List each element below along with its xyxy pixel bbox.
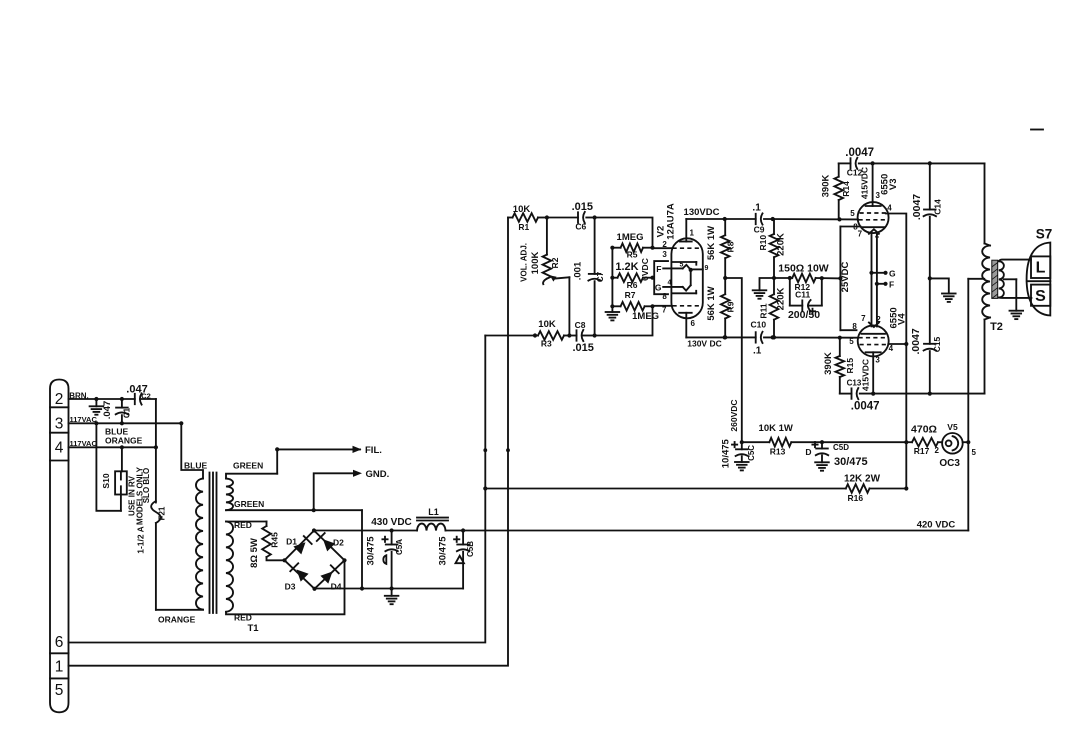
svg-text:.0047: .0047 bbox=[845, 147, 874, 159]
svg-text:25VDC: 25VDC bbox=[840, 262, 851, 293]
svg-text:150Ω 10W: 150Ω 10W bbox=[778, 263, 829, 275]
tube V5 OC3 bbox=[939, 422, 976, 469]
T2 core bbox=[992, 260, 998, 298]
svg-text:130VDC: 130VDC bbox=[684, 207, 720, 218]
reference dash bbox=[1031, 129, 1043, 131]
svg-text:7: 7 bbox=[861, 314, 866, 323]
node G heater bbox=[869, 268, 896, 278]
svg-text:D4: D4 bbox=[331, 581, 342, 591]
connector P1 bbox=[50, 380, 69, 713]
svg-text:2: 2 bbox=[55, 391, 64, 408]
T1 HV winding RED bbox=[226, 520, 345, 622]
svg-text:100K: 100K bbox=[530, 252, 541, 275]
wire FIL arrow bbox=[275, 445, 382, 474]
svg-text:R7: R7 bbox=[625, 290, 636, 300]
svg-text:C15: C15 bbox=[932, 336, 942, 352]
ground at R7 bbox=[606, 312, 620, 320]
wire fuse to T1 ORANGE bbox=[156, 610, 203, 625]
svg-text:1.2K: 1.2K bbox=[615, 261, 638, 273]
svg-text:6: 6 bbox=[691, 319, 696, 328]
wire 430VDC / 420VDC rail bbox=[314, 517, 968, 533]
svg-text:4: 4 bbox=[889, 344, 894, 353]
wire C9 to V3 grid bbox=[764, 217, 858, 222]
wire V3 screen pin4 bbox=[886, 214, 907, 345]
wire plate rail bottom bbox=[860, 392, 985, 396]
svg-text:7: 7 bbox=[858, 229, 863, 238]
svg-text:D: D bbox=[805, 447, 811, 457]
svg-text:R13: R13 bbox=[770, 446, 786, 456]
svg-text:C10: C10 bbox=[751, 320, 767, 330]
capacitor C6 .015 bbox=[547, 201, 593, 231]
svg-text:C14: C14 bbox=[933, 199, 943, 215]
capacitor C11 200/50 bbox=[788, 278, 822, 321]
svg-text:.0047: .0047 bbox=[911, 194, 923, 220]
ground at splitter bbox=[753, 278, 774, 299]
svg-text:415VDC: 415VDC bbox=[861, 359, 871, 391]
svg-text:D3: D3 bbox=[285, 581, 296, 591]
resistor R12 150ohm 10W bbox=[774, 263, 843, 293]
svg-text:C6: C6 bbox=[575, 221, 586, 231]
tube V4 6550 bbox=[849, 307, 907, 393]
wire 420VDC riser bbox=[917, 279, 971, 531]
diode D1 bbox=[286, 536, 312, 554]
svg-text:4: 4 bbox=[55, 440, 64, 457]
wire green lower to rail bbox=[360, 510, 364, 590]
svg-text:30/475: 30/475 bbox=[438, 536, 449, 566]
svg-text:T1: T1 bbox=[247, 623, 259, 634]
svg-text:OC3: OC3 bbox=[939, 458, 960, 469]
wire 130VDC bottom line bbox=[686, 335, 755, 348]
svg-text:220K: 220K bbox=[775, 233, 786, 256]
wire bias line to R17 bbox=[822, 440, 908, 444]
svg-text:C1: C1 bbox=[123, 407, 132, 418]
svg-text:L1: L1 bbox=[428, 507, 439, 517]
ground at C14/C15 bbox=[928, 276, 956, 302]
svg-text:5: 5 bbox=[972, 448, 977, 457]
diode D3 bbox=[285, 563, 309, 591]
svg-text:R1: R1 bbox=[518, 222, 529, 232]
T2 primary center tap bbox=[968, 278, 984, 280]
capacitor C7 .001 bbox=[573, 218, 605, 336]
svg-text:1: 1 bbox=[55, 659, 64, 676]
transformer T2 primary bbox=[982, 163, 990, 393]
wire V4 screen pin4 bbox=[888, 342, 908, 442]
resistor R9 56K 1W bbox=[706, 278, 735, 340]
transformer T1 primary winding BLUE/ORANGE bbox=[181, 423, 207, 609]
capacitor C5A 30/475 bbox=[366, 531, 404, 591]
svg-text:1: 1 bbox=[690, 228, 695, 237]
svg-text:8: 8 bbox=[662, 292, 667, 301]
svg-text:F21: F21 bbox=[158, 506, 167, 520]
svg-text:R8: R8 bbox=[725, 241, 735, 252]
wire heater lines V3-V4 bbox=[872, 234, 877, 327]
resistor R15 390K bbox=[823, 338, 855, 394]
svg-text:117VAC: 117VAC bbox=[70, 439, 98, 448]
svg-text:RED: RED bbox=[234, 520, 252, 530]
svg-text:.047: .047 bbox=[102, 401, 113, 420]
svg-text:.001: .001 bbox=[573, 261, 584, 280]
tube V3 6550 bbox=[850, 163, 899, 239]
svg-text:R3: R3 bbox=[541, 339, 552, 349]
svg-text:GREEN: GREEN bbox=[234, 499, 264, 509]
tube V2 12AU7A envelope bbox=[656, 203, 703, 318]
wire pin 3 117VAC bbox=[69, 415, 184, 446]
svg-text:10K: 10K bbox=[538, 319, 556, 330]
T2 label bbox=[990, 321, 1003, 333]
resistor R14 390K bbox=[821, 163, 852, 219]
capacitor C14 .0047 bbox=[911, 163, 943, 278]
svg-text:390K: 390K bbox=[821, 175, 832, 198]
ground below C5A bbox=[385, 589, 399, 605]
diode D2 bbox=[317, 533, 344, 551]
svg-text:390K: 390K bbox=[823, 352, 834, 375]
svg-text:C5C: C5C bbox=[747, 445, 756, 461]
svg-text:2: 2 bbox=[662, 240, 667, 249]
svg-text:3: 3 bbox=[662, 250, 667, 259]
svg-text:C5B: C5B bbox=[466, 541, 475, 557]
svg-text:8: 8 bbox=[852, 322, 857, 331]
svg-text:D2: D2 bbox=[333, 538, 344, 548]
svg-text:R11: R11 bbox=[759, 303, 769, 318]
svg-text:C2: C2 bbox=[141, 391, 151, 400]
diode D4 bbox=[320, 565, 341, 591]
wire R5-R7 left bus bbox=[611, 248, 613, 312]
wire plate rail top bbox=[871, 161, 985, 165]
svg-text:C7: C7 bbox=[596, 271, 605, 282]
resistor R7 1MEG bbox=[610, 290, 659, 322]
svg-text:BRN.: BRN. bbox=[69, 391, 89, 400]
T2 secondary bbox=[999, 260, 1032, 298]
resistor R17 470ohm bbox=[906, 424, 942, 457]
connector S7 bbox=[1027, 227, 1053, 316]
svg-text:6: 6 bbox=[55, 634, 64, 651]
svg-text:ORANGE: ORANGE bbox=[158, 615, 196, 625]
svg-text:1MEG: 1MEG bbox=[632, 311, 659, 322]
svg-text:2: 2 bbox=[934, 446, 939, 455]
svg-text:GREEN: GREEN bbox=[233, 460, 263, 470]
svg-text:R2: R2 bbox=[550, 257, 560, 268]
svg-text:FIL.: FIL. bbox=[365, 445, 382, 456]
potentiometer R2 VOL.ADJ 100K bbox=[519, 218, 569, 336]
svg-text:10K: 10K bbox=[513, 204, 531, 215]
svg-text:R10: R10 bbox=[758, 235, 768, 251]
V2 heater center pin 9 bbox=[689, 265, 709, 285]
capacitor C9 .1 bbox=[752, 203, 764, 235]
wire C8 to V2 pin7 bbox=[595, 304, 672, 335]
wire 25VDC cathode line bbox=[840, 227, 861, 331]
svg-text:4: 4 bbox=[668, 279, 672, 286]
svg-text:5: 5 bbox=[680, 261, 684, 268]
capacitor C5D 30/475 bbox=[805, 442, 867, 471]
svg-text:ORANGE: ORANGE bbox=[105, 436, 143, 446]
svg-text:S7: S7 bbox=[1036, 227, 1053, 242]
svg-text:.1: .1 bbox=[753, 345, 762, 356]
T1 label bbox=[247, 623, 259, 634]
svg-text:R9: R9 bbox=[725, 301, 735, 312]
svg-text:4: 4 bbox=[887, 204, 892, 213]
svg-text:VOL. ADJ.: VOL. ADJ. bbox=[519, 243, 528, 282]
svg-text:C5A: C5A bbox=[395, 539, 404, 555]
svg-text:10K 1W: 10K 1W bbox=[759, 423, 793, 434]
svg-text:7: 7 bbox=[662, 305, 667, 314]
wire C2 to fuse bbox=[155, 399, 157, 447]
switch S10 bbox=[101, 447, 144, 525]
resistor R1 10K bbox=[508, 204, 549, 232]
T2 secondary tap to ground bbox=[1004, 279, 1023, 319]
svg-text:R17: R17 bbox=[914, 446, 930, 456]
svg-text:BLUE: BLUE bbox=[184, 460, 207, 470]
svg-text:2: 2 bbox=[876, 315, 881, 324]
svg-text:430 VDC: 430 VDC bbox=[371, 517, 412, 528]
svg-text:117VAC: 117VAC bbox=[70, 415, 98, 424]
svg-text:9: 9 bbox=[705, 265, 709, 272]
svg-text:.015: .015 bbox=[572, 201, 593, 213]
resistor R6 1.2K bbox=[610, 258, 654, 290]
wire C6 to V2 grid bbox=[586, 215, 671, 249]
resistor R5 1MEG bbox=[610, 232, 652, 260]
resistor R8 56K 1W bbox=[706, 219, 735, 280]
svg-text:56K 1W: 56K 1W bbox=[706, 226, 717, 260]
svg-text:.0047: .0047 bbox=[910, 328, 922, 354]
T1 core bbox=[210, 473, 217, 614]
svg-text:R16: R16 bbox=[848, 493, 864, 503]
capacitor C1 .047 bbox=[102, 399, 132, 423]
V2 grid 2 dashed pin 7 bbox=[662, 305, 701, 314]
V2 heater G stub pin 4 bbox=[655, 279, 691, 292]
svg-text:R14: R14 bbox=[841, 181, 851, 197]
wire 130VDC top line bbox=[684, 207, 756, 221]
svg-text:V4: V4 bbox=[896, 313, 907, 325]
V2 plate 2 pin 6 bbox=[679, 313, 695, 338]
wire S10 to pin3 bbox=[96, 423, 121, 511]
svg-text:L: L bbox=[1036, 260, 1046, 277]
svg-text:S10: S10 bbox=[101, 473, 111, 488]
svg-text:220K: 220K bbox=[775, 288, 786, 311]
svg-text:130V DC: 130V DC bbox=[687, 338, 722, 348]
resistor R10 220K bbox=[758, 219, 786, 280]
capacitor C5B 30/475 bbox=[438, 531, 475, 589]
svg-text:F: F bbox=[656, 264, 661, 274]
svg-text:12K 2W: 12K 2W bbox=[844, 474, 881, 485]
capacitor C12 .0047 bbox=[839, 147, 874, 199]
capacitor C5C 10/475 bbox=[721, 438, 756, 470]
capacitor C2 .047 bbox=[126, 383, 151, 404]
svg-text:10/475: 10/475 bbox=[721, 438, 732, 468]
svg-text:V3: V3 bbox=[888, 178, 899, 190]
fuse F2 slo-blo 1-1/2A bbox=[136, 447, 167, 610]
wire pin 1 bus bbox=[69, 218, 510, 666]
wire 260VDC bbox=[725, 278, 742, 442]
capacitor C13 .0047 bbox=[840, 359, 880, 413]
resistor R11 220K bbox=[759, 278, 787, 340]
svg-text:1MEG: 1MEG bbox=[617, 232, 644, 243]
svg-text:3: 3 bbox=[875, 191, 880, 200]
svg-text:V5: V5 bbox=[947, 422, 958, 432]
resistor R3 10K bbox=[538, 319, 572, 349]
svg-text:30/475: 30/475 bbox=[834, 456, 868, 468]
svg-text:30/475: 30/475 bbox=[366, 536, 377, 566]
wire R3 line bbox=[485, 333, 538, 337]
wire supply bottom rail bbox=[315, 588, 464, 590]
svg-text:G: G bbox=[889, 268, 896, 278]
svg-text:1-1/2 A: 1-1/2 A bbox=[136, 526, 146, 554]
svg-text:GND.: GND. bbox=[366, 469, 390, 480]
svg-text:3: 3 bbox=[55, 416, 64, 433]
V2 grid 1 dashed bbox=[662, 240, 701, 259]
svg-text:.1: .1 bbox=[752, 203, 761, 214]
svg-text:420 VDC: 420 VDC bbox=[917, 520, 956, 531]
V2 heater F stub pin 5 bbox=[656, 261, 690, 273]
svg-text:12AU7A: 12AU7A bbox=[666, 203, 677, 240]
ground at C1 bbox=[90, 399, 104, 415]
wire pin 2 BRN bbox=[69, 391, 156, 401]
svg-text:RED: RED bbox=[234, 612, 252, 622]
svg-text:R6: R6 bbox=[627, 280, 638, 290]
svg-text:200/50: 200/50 bbox=[788, 309, 820, 321]
resistor R45 8ohm 5W bbox=[249, 522, 285, 568]
svg-text:470Ω: 470Ω bbox=[911, 424, 937, 436]
svg-text:R5: R5 bbox=[627, 250, 638, 260]
svg-text:SLO BLO: SLO BLO bbox=[142, 468, 151, 504]
node F heater bbox=[875, 279, 894, 289]
svg-text:R45: R45 bbox=[270, 532, 280, 548]
T1 filament winding GREEN bbox=[226, 460, 362, 512]
capacitor C15 .0047 bbox=[910, 278, 942, 393]
wire pin 6 bus bbox=[69, 336, 488, 643]
V2 plate 1 bbox=[680, 219, 695, 242]
capacitor C10 .1 bbox=[751, 320, 767, 357]
svg-text:C8: C8 bbox=[575, 320, 586, 330]
svg-text:C11: C11 bbox=[795, 289, 810, 299]
svg-text:C5D: C5D bbox=[833, 443, 849, 452]
svg-text:260VDC: 260VDC bbox=[729, 399, 739, 431]
resistor R13 10K 1W bbox=[742, 423, 824, 456]
svg-text:5: 5 bbox=[849, 337, 854, 346]
wire GND arrow bbox=[314, 469, 390, 510]
svg-text:.0047: .0047 bbox=[851, 401, 880, 413]
svg-text:S: S bbox=[1035, 288, 1046, 305]
svg-text:415VDC: 415VDC bbox=[859, 167, 869, 199]
svg-text:D1: D1 bbox=[286, 537, 297, 547]
svg-text:56K 1W: 56K 1W bbox=[706, 286, 717, 320]
svg-text:T2: T2 bbox=[990, 321, 1003, 333]
capacitor C8 .015 bbox=[569, 320, 596, 354]
svg-text:5: 5 bbox=[850, 209, 855, 218]
V2 cathode bracket pins 3/8 bbox=[654, 261, 696, 301]
svg-text:6VDC: 6VDC bbox=[640, 258, 650, 281]
svg-text:8Ω 5W: 8Ω 5W bbox=[249, 538, 260, 568]
svg-text:.015: .015 bbox=[572, 342, 593, 354]
svg-text:C9: C9 bbox=[754, 225, 765, 235]
wire pin 4 117VAC bbox=[69, 439, 158, 450]
resistor R16 12K 2W bbox=[485, 442, 908, 503]
svg-text:5: 5 bbox=[55, 682, 64, 699]
svg-text:F: F bbox=[889, 279, 894, 289]
bridge wires and corner nodes bbox=[282, 528, 346, 591]
inductor L1 bbox=[417, 507, 448, 530]
svg-text:G: G bbox=[655, 282, 662, 292]
svg-text:R15: R15 bbox=[845, 358, 855, 374]
wire C10 to V4 grid bbox=[764, 335, 858, 340]
svg-text:3: 3 bbox=[875, 356, 880, 365]
